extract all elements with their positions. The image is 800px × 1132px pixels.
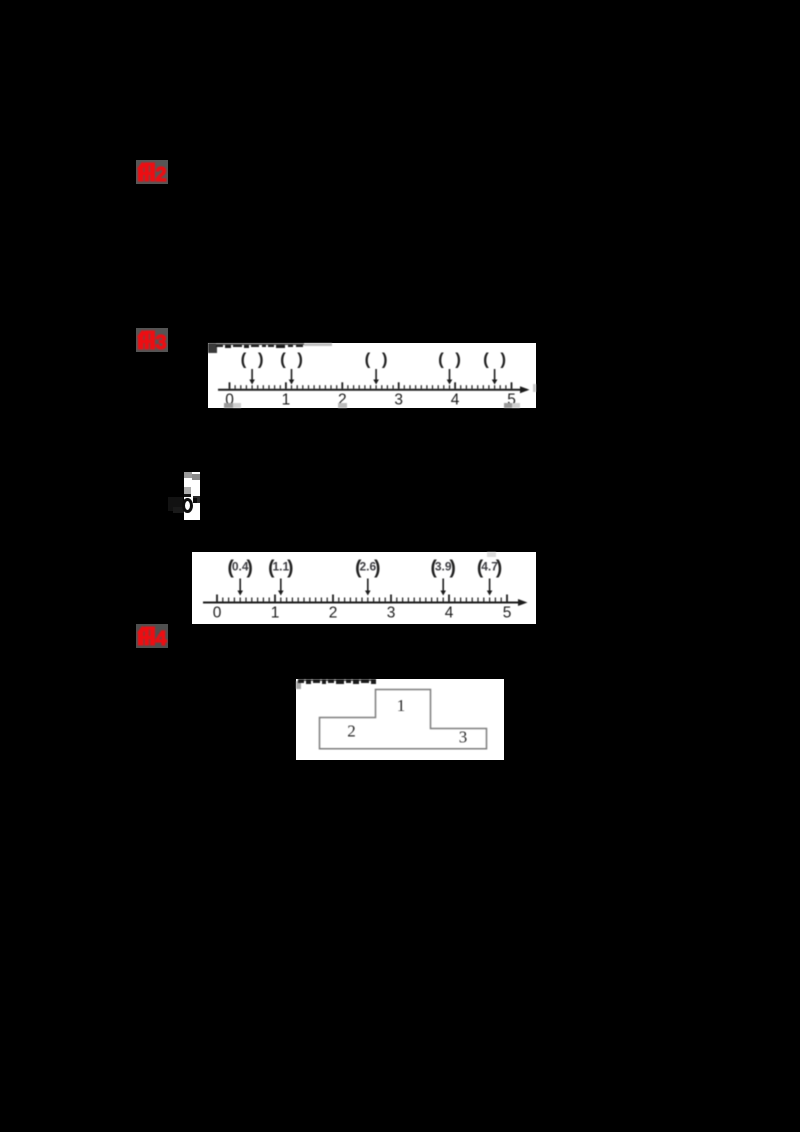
svg-text:0.4: 0.4 — [232, 560, 249, 574]
svg-text:3: 3 — [459, 728, 468, 747]
white box 2 : number line with answer values — [192, 552, 536, 624]
number line axis box 2 — [203, 602, 525, 604]
white box 3 : podium diagram — [296, 679, 504, 760]
svg-text:): ) — [455, 350, 461, 369]
svg-text:): ) — [297, 350, 303, 369]
arrow pointing to 2.6 — [375, 369, 377, 381]
tick marks box 2 — [216, 595, 218, 602]
scan debris patch left of box 2 — [168, 470, 202, 522]
cut-off text fragments above podium box — [296, 679, 376, 689]
svg-text:0: 0 — [213, 605, 222, 622]
arrow pointing to 2.6 — [367, 579, 369, 592]
arrow pointing to 3.9 — [449, 369, 451, 381]
svg-text:5: 5 — [503, 605, 512, 622]
svg-text:1: 1 — [397, 696, 406, 715]
scan artifacts bottom box 1 — [224, 384, 536, 408]
arrow pointing to 1.1 — [280, 579, 282, 592]
arrow pointing to 1.1 — [291, 369, 293, 381]
red section label 例3 — [136, 328, 168, 352]
svg-text:(: ( — [241, 350, 247, 369]
svg-text:2.6: 2.6 — [359, 560, 376, 574]
svg-text:): ) — [258, 350, 264, 369]
svg-text:1.1: 1.1 — [272, 560, 289, 574]
svg-text:1: 1 — [271, 605, 280, 622]
svg-text:4: 4 — [445, 605, 454, 622]
svg-text:3: 3 — [387, 605, 396, 622]
red section label 例2 — [136, 160, 168, 184]
tick marks box 1 — [229, 382, 231, 389]
svg-text:(: ( — [280, 350, 286, 369]
svg-text:): ) — [382, 350, 388, 369]
arrow pointing to 0.4 — [251, 369, 253, 381]
svg-text:4: 4 — [155, 628, 167, 648]
podium outline — [320, 690, 487, 749]
svg-text:3: 3 — [394, 392, 403, 409]
svg-text:2: 2 — [347, 722, 356, 741]
svg-text:4: 4 — [451, 392, 460, 409]
svg-text:(: ( — [438, 350, 444, 369]
svg-text:2: 2 — [329, 605, 338, 622]
arrow pointing to 0.4 — [239, 579, 241, 593]
red section label 例4 — [136, 624, 168, 648]
number line axis box 1 — [218, 389, 527, 391]
svg-text:1: 1 — [282, 392, 291, 409]
cut-off text fragments above box 1 — [208, 343, 332, 353]
svg-text:3: 3 — [155, 332, 166, 352]
svg-text:2: 2 — [155, 164, 166, 184]
arrow pointing to 4.7 — [489, 579, 491, 592]
svg-text:3.9: 3.9 — [435, 560, 452, 574]
arrow pointing to 3.9 — [442, 579, 444, 592]
white box 1 : number line with empty parentheses — [208, 343, 536, 408]
svg-text:(: ( — [365, 350, 371, 369]
arrow pointing to 4.7 — [494, 369, 496, 381]
svg-text:4.7: 4.7 — [481, 560, 498, 574]
scan artifact above (4.7) — [487, 552, 496, 557]
svg-text:(: ( — [483, 350, 489, 369]
svg-text:): ) — [500, 350, 506, 369]
